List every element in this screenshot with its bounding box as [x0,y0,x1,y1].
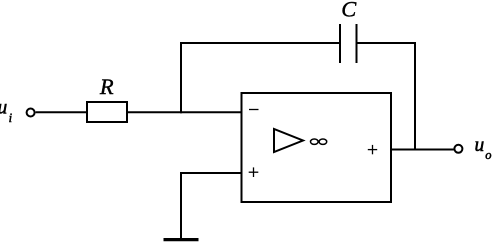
svg-text:R: R [99,74,114,99]
wire feedback top run to capacitor [180,42,340,44]
op-amp gain triangle [274,129,303,152]
resistor R [87,102,127,122]
svg-text:ui: ui [0,98,13,125]
wire resistor to op-amp inverting input [127,111,242,113]
wire input terminal to resistor [36,111,88,113]
wire noninverting input to ground [181,173,242,239]
op-amp infinite gain symbol [311,139,327,144]
output terminal node u_o [454,145,462,153]
svg-text:C: C [341,0,357,22]
wire feedback right vertical to output node [414,42,416,151]
op-amp noninverting input label plus [249,167,259,177]
op-amp inverting input label minus [249,109,259,111]
svg-text:uo: uo [475,135,492,162]
wire op-amp output to terminal [391,149,454,151]
wire capacitor to feedback right vertical [357,42,416,44]
op-amp output polarity label plus [368,145,377,154]
op-amp U1 body [242,93,392,202]
input terminal node u_i [27,109,35,117]
capacitor C [340,24,357,63]
ground [164,238,199,241]
wire feedback vertical from input node [180,42,182,113]
